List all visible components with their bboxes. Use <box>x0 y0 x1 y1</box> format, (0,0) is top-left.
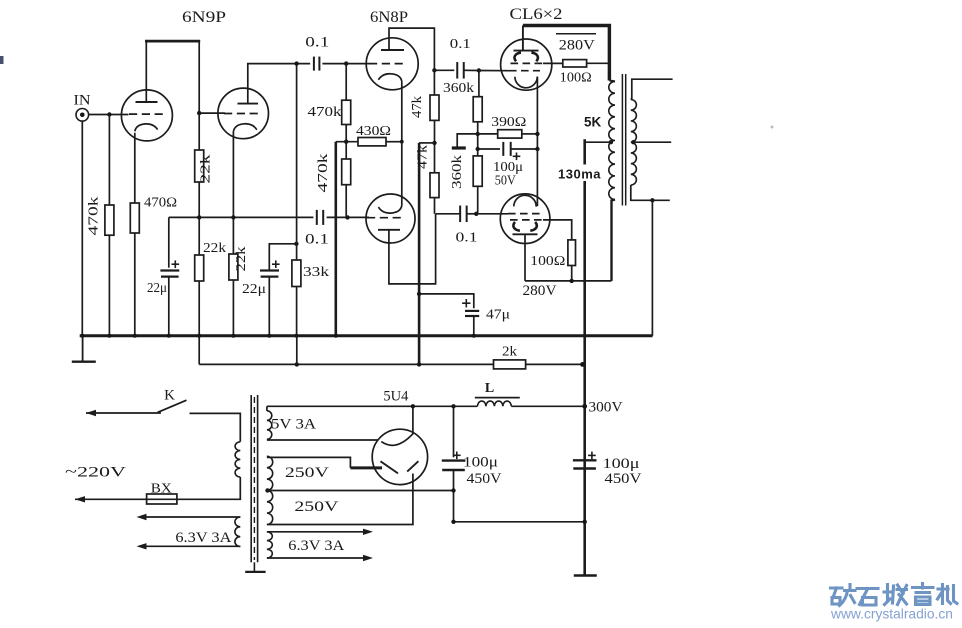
resistor R14 100ohm screen body (lower) <box>568 240 576 266</box>
wire B+ feed column (thick) down across rail to 2k wire <box>418 143 421 365</box>
node HV center tap <box>265 488 269 492</box>
input jack IN <box>76 109 89 122</box>
tube V2 cathode lead down to cathode line <box>232 132 234 218</box>
tube V6 CL6 lower envelope <box>500 194 550 244</box>
wire C2 to V3 grid node <box>322 63 346 65</box>
resistor R17 leads <box>296 217 298 260</box>
svg-text:6.3V 3A: 6.3V 3A <box>288 538 345 554</box>
svg-text:47k: 47k <box>415 145 430 169</box>
svg-text:5V 3A: 5V 3A <box>271 417 317 433</box>
svg-text:0.1: 0.1 <box>456 231 478 246</box>
svg-text:450V: 450V <box>467 471 503 487</box>
svg-text:470k: 470k <box>86 196 101 235</box>
choke L winding <box>478 401 512 406</box>
wire V1 plate riser and top route to node A <box>145 41 147 102</box>
wire HV center tap to filter negative <box>267 490 454 492</box>
node cathode column at 390ohm <box>535 132 539 136</box>
node V4 grid / 470k lower <box>345 215 349 219</box>
capacitor C4 0.1 (cathode line coupling) <box>316 210 318 225</box>
resistor R16 430ohm body <box>358 138 386 146</box>
capacitor C8 47u plates <box>465 310 479 312</box>
wire fuse to mains arrow lower <box>75 498 147 500</box>
wire V4 plate riser to C6 <box>436 213 461 215</box>
svg-text:5K: 5K <box>584 115 602 130</box>
resistor R10 leads <box>434 143 436 173</box>
svg-text:2k: 2k <box>502 345 517 360</box>
resistor R12 leads <box>477 134 479 156</box>
stray scan speck <box>771 126 774 129</box>
svg-text:0.1: 0.1 <box>305 232 329 248</box>
capacitor C2 0.1 coupling (V2 plate to V3 grid) <box>313 57 315 71</box>
resistor R16 leads <box>336 141 358 143</box>
node V1 grid / R1 <box>107 112 111 116</box>
resistor R2 lead to ground rail <box>134 233 136 336</box>
svg-text:www.crystalradio.cn: www.crystalradio.cn <box>830 607 953 622</box>
capacitor C11 100u/450V plates (second filter) <box>573 459 597 461</box>
node R3 bottom on cathode line <box>197 215 201 219</box>
capacitor C7 100u/50V plates <box>502 142 504 156</box>
resistor R8 47k body (upper, V3 plate load) <box>430 95 439 120</box>
tube V5 grid dashes <box>509 70 540 72</box>
capacitor C10 100u/450V column <box>453 406 455 457</box>
svg-text:22k: 22k <box>198 154 213 183</box>
tube V5 beam plate left <box>515 53 521 62</box>
tube V2 6N9P section B envelope <box>218 88 269 139</box>
node rail tie on 2k row <box>295 362 299 366</box>
node B V3 plate <box>432 68 436 72</box>
resistor R9 leads <box>478 71 480 97</box>
tube V5 plate bar <box>514 50 539 52</box>
T1 HV winding 250-0-250 coil <box>267 456 273 524</box>
node V2 cathode on cathode line <box>231 215 235 219</box>
capacitor C9 plus sign <box>272 263 280 265</box>
wire 5V bottom to 5U4 filament <box>267 439 379 441</box>
tube V2 grid dashes <box>224 113 260 115</box>
wire 6.3V right top lead <box>267 531 364 533</box>
node filament riser on B+ raw line <box>411 404 415 408</box>
svg-text:100μ: 100μ <box>463 455 498 471</box>
tube V6 screen dashes <box>510 219 543 221</box>
resistor R7 470k body (V3 grid leak upper) <box>342 100 351 124</box>
node 33k / 22u tap <box>294 242 298 246</box>
wire HV top 250V lead to 5U4 plate <box>267 457 351 468</box>
tube V1 cathode lead <box>134 133 136 203</box>
node bias junction upper (390ohm / 360k) <box>476 132 480 136</box>
resistor R12 360k body (lower V6 grid leak) <box>473 156 482 186</box>
svg-text:250V: 250V <box>285 465 330 481</box>
tube V1 grid dashes <box>129 113 166 115</box>
ground rail main (thick) <box>80 334 653 337</box>
capacitor C8 plus sign <box>462 302 470 304</box>
wire 5V top / B+ raw line to choke and 300V <box>267 405 478 407</box>
node V5 grid / R9 360k <box>477 68 481 72</box>
T1 rectifier heater winding 5V coil <box>267 411 272 440</box>
resistor R2 470ohm cathode body <box>130 203 139 233</box>
node 2k to B+ column <box>580 362 585 367</box>
resistor R1 470k body <box>105 205 114 235</box>
tube V6 grid dashes <box>508 213 540 215</box>
svg-text:6.3V 3A: 6.3V 3A <box>175 530 232 546</box>
output transformer T2 secondary top lead <box>631 79 673 99</box>
resistor R5 22k body (second on node-A column) <box>195 255 204 281</box>
resistor R10 47k body (lower, V4 plate load) <box>430 173 439 198</box>
ground symbol left <box>82 336 84 362</box>
svg-text:360k: 360k <box>449 155 464 189</box>
rectifier 5U4 anode right <box>407 461 418 471</box>
svg-text:22μ: 22μ <box>147 281 167 296</box>
tube V4 grid dashes <box>367 217 403 219</box>
svg-text:250V: 250V <box>294 499 339 515</box>
wire C6 to V6 grid node <box>467 213 477 215</box>
node cathode column at C7 <box>535 147 539 151</box>
node bottom wire left <box>451 520 455 524</box>
node C10 to HV center tap <box>451 488 455 492</box>
capacitor C6 0.1 coupling (V4 plate to V6 grid) <box>459 206 461 223</box>
svg-text:430Ω: 430Ω <box>356 124 391 139</box>
svg-text:22k: 22k <box>233 246 248 271</box>
resistor R14 lead <box>571 266 573 281</box>
output transformer T2 core <box>621 74 623 206</box>
node bias junction lower (100u50V wire) <box>476 147 480 151</box>
filter negative bottom wire <box>454 521 585 523</box>
resistor R17 33k body <box>292 260 301 287</box>
wire 6.3V left bottom lead <box>143 545 240 547</box>
mains arrow upper <box>86 410 96 416</box>
svg-text:100μ: 100μ <box>603 456 640 472</box>
capacitor C10 lower lead <box>453 470 455 522</box>
tube V3 cathode arc <box>378 74 401 82</box>
switch K lever <box>158 400 187 412</box>
tube V1 6N9P section A envelope <box>121 90 172 141</box>
resistor R9 360k body (upper V5 grid leak) <box>473 97 482 122</box>
label 130ma background patch <box>556 165 605 182</box>
tube V5 CL6 upper envelope <box>501 39 552 90</box>
wire long-tail column (thick) to ground rail <box>334 142 337 336</box>
tube V1 plate bar <box>136 101 158 103</box>
wire decoupler tap to capacitor C8 47u <box>419 294 474 308</box>
svg-text:L: L <box>485 381 494 396</box>
tube V3 6N8P section A envelope <box>366 38 418 90</box>
resistor R1 470k grid leak: lead <box>108 115 110 206</box>
node B+ feed on 2k row <box>417 362 421 366</box>
svg-text:0.1: 0.1 <box>305 35 329 51</box>
tube V1 cathode arc <box>135 124 158 131</box>
capacitor C10 plates <box>442 459 466 461</box>
capacitor C3 22u (V1 side) top corner <box>168 217 170 267</box>
wire rail tie riser <box>296 336 298 364</box>
svg-text:K: K <box>164 388 175 404</box>
wire V5 screen lead <box>543 62 563 64</box>
wire V6 screen lead <box>543 220 572 240</box>
resistor R11 lead to B+ <box>587 62 610 64</box>
svg-text:450V: 450V <box>605 471 643 487</box>
wire shared cathode column V5-V6 <box>536 149 538 206</box>
wire V4 plate route down-right-up to C6 <box>389 214 436 284</box>
wire 6.3V right bottom lead <box>267 557 364 559</box>
svg-text:280V: 280V <box>559 38 596 54</box>
svg-text:100Ω: 100Ω <box>560 71 592 86</box>
wire V5 plate riser to top B+ line <box>522 26 524 51</box>
resistor R7 leads <box>345 64 347 101</box>
wire node B to coupling cap C5 <box>434 69 454 71</box>
svg-text:CL6×2: CL6×2 <box>510 6 563 23</box>
tube V5 beam plate right <box>531 53 537 62</box>
tube V5 cathode lead down to bias network <box>536 77 538 149</box>
T1 primary coil <box>235 442 240 477</box>
node V6 grid / R12 360k <box>474 212 478 216</box>
output transformer T2 secondary bottom lead <box>631 185 670 200</box>
node filter cap C10 on B+ raw line <box>451 404 455 408</box>
resistor R5 lead to ground rail and below <box>198 217 200 255</box>
wire 6.3V left top lead <box>143 516 240 518</box>
wire bias to capacitor C7 <box>478 148 500 150</box>
tube V6 beam plate left <box>513 222 519 231</box>
output transformer T2 secondary winding <box>631 100 637 186</box>
resistor R3 22k upper body on node-A column <box>195 150 204 182</box>
capacitor C3 lead to ground rail <box>168 277 170 336</box>
node secondary return <box>650 198 654 202</box>
feedback/bleeder wire 2k row <box>198 336 200 365</box>
svg-text:300V: 300V <box>589 400 624 416</box>
resistor R11 100ohm screen body <box>563 60 587 67</box>
ground symbol right <box>574 574 597 576</box>
capacitor C3 22u plates <box>160 269 179 271</box>
node V3/V4 cathode tie <box>400 140 404 144</box>
svg-text:6N8P: 6N8P <box>370 9 408 26</box>
wire HV bottom 250V lead to 5U4 plate <box>267 474 413 525</box>
wire secondary return to ground rail <box>651 200 653 335</box>
tube V2 plate bar <box>238 103 259 105</box>
node A V1 plate to V2 grid <box>197 111 201 115</box>
output transformer T2 primary center tap <box>609 140 613 144</box>
node V2 plate load on plate wire <box>294 61 298 65</box>
T1 core ground stem and bar <box>253 562 255 572</box>
tube V4 cathode arc <box>378 206 401 214</box>
power transformer T1 core <box>250 395 252 562</box>
resistor R15 470k body (lower, V4 grid leak) <box>342 159 351 185</box>
wire switch to T1 primary <box>190 413 241 441</box>
rectifier 5U4 anode left <box>381 461 399 473</box>
tube V3 plate bar <box>381 49 404 51</box>
wire V3 plate riser top route down to node B <box>389 28 434 70</box>
node 300V <box>582 404 587 409</box>
tube V6 plate bar <box>513 233 538 235</box>
svg-text:0.1: 0.1 <box>450 37 471 52</box>
tube V4 plate bar <box>378 229 400 231</box>
tube V2 cathode arc <box>233 124 256 132</box>
resistor R13 390ohm body <box>498 130 522 138</box>
node cathode bias junction 430ohm <box>344 140 348 144</box>
node 47u decoupler tap <box>417 292 421 296</box>
tube V4 cathode lead up to 430ohm wire <box>401 142 403 206</box>
wire secondary mid tap out <box>633 141 671 143</box>
resistor R15 leads <box>345 142 347 159</box>
ground rail connection dots <box>80 334 84 338</box>
tube V6 cathode arc <box>514 195 536 206</box>
capacitor C9 lead to ground rail <box>268 277 270 336</box>
svg-text:IN: IN <box>74 93 92 109</box>
wire C5 to V5 grid node <box>464 69 479 71</box>
tube V4 6N8P section B envelope (inverted) <box>366 194 415 243</box>
fuse BX body <box>147 494 177 504</box>
stray blue scan mark left edge <box>0 56 4 64</box>
rectifier 5U4 filament arc <box>381 433 413 445</box>
cathode line wire y217 from 22u corner to V4 grid <box>169 216 314 218</box>
capacitor C5 0.1 coupling (V3 plate to V5 grid) <box>456 62 458 79</box>
T1 heater winding 6.3V right coil <box>267 532 272 558</box>
wire V6 grid from node <box>476 213 508 215</box>
wire node to V3 grid <box>346 63 369 65</box>
resistor R6 leads <box>232 217 234 254</box>
tube V5 screen dashes <box>511 62 544 64</box>
resistor R8 leads <box>433 70 435 95</box>
wire C4 to V4 grid <box>327 216 369 218</box>
resistor R3 leads <box>198 113 200 150</box>
svg-text:6N9P: 6N9P <box>182 9 226 26</box>
wire node A to V2 grid <box>199 112 225 114</box>
resistor R13 leads <box>478 133 498 135</box>
wire V5 grid from node <box>479 70 509 72</box>
svg-text:280V: 280V <box>523 283 558 299</box>
tube V6 beam plate right <box>530 222 536 231</box>
tube V3 grid dashes <box>369 63 405 65</box>
tube V3 cathode lead down to 430ohm wire <box>401 81 403 141</box>
wire choke output to 300V node <box>511 405 584 407</box>
output transformer T2 primary bottom lead <box>612 200 616 281</box>
label 280V upper overline <box>556 33 596 35</box>
watermark Chinese characters (drawn strokes) <box>831 584 958 606</box>
svg-text:~220V: ~220V <box>65 465 126 481</box>
wire V2 plate load column to 33k <box>296 64 298 218</box>
capacitor C9 22u plates <box>260 269 279 271</box>
resistor R6 22k body (V2 cathode column) <box>229 254 238 280</box>
svg-text:470Ω: 470Ω <box>144 196 177 211</box>
svg-text:47k: 47k <box>409 96 424 118</box>
output transformer T2 primary winding 5K <box>608 26 611 81</box>
node screen resistor to plate wire <box>570 279 574 283</box>
wire node C to B+ feed column <box>419 142 434 144</box>
capacitor C9 22u (V2 side) top lead <box>269 244 296 271</box>
wire top plate supply line (thick) to output transformer <box>523 26 610 81</box>
capacitor C11 plus sign <box>588 454 596 456</box>
power transformer T1 primary winding <box>86 412 161 414</box>
wire B+ main column (thick) from center tap down to 300V node <box>583 139 586 575</box>
ground stub of bias network <box>457 134 478 147</box>
svg-text:130ma: 130ma <box>558 167 601 182</box>
svg-text:22μ: 22μ <box>242 282 266 297</box>
capacitor C7 plus sign <box>513 155 521 157</box>
svg-text:33k: 33k <box>303 265 329 280</box>
svg-text:22k: 22k <box>203 241 226 256</box>
tube V5 cathode arc <box>515 77 537 88</box>
output transformer T2 secondary mid tap <box>631 140 635 144</box>
node bottom wire right <box>583 520 587 524</box>
wire IN jack sleeve to ground rail <box>81 121 83 336</box>
capacitor C8 lead to ground rail <box>473 316 475 336</box>
rectifier 5U4 envelope <box>372 429 427 484</box>
wire C7 to cathode column <box>511 148 538 150</box>
svg-text:470k: 470k <box>315 153 330 192</box>
svg-text:100Ω: 100Ω <box>530 254 565 269</box>
wire V6 plate lead down to bottom plate wire <box>524 234 526 281</box>
capacitor C3 plus sign <box>172 263 180 265</box>
choke L core bar <box>475 397 520 399</box>
wire primary center tap to B+ column <box>585 141 612 143</box>
wire V2 plate riser to coupling cap C2 <box>248 64 310 104</box>
wire bottom plate supply to output transformer <box>525 280 612 282</box>
node C decoupled B+ for driver <box>432 141 436 145</box>
capacitor C10 plus sign <box>453 454 461 456</box>
svg-text:50V: 50V <box>495 174 516 189</box>
svg-text:390Ω: 390Ω <box>491 115 526 130</box>
svg-text:BX: BX <box>151 482 172 497</box>
wire T1 primary bottom to fuse BX <box>177 477 240 499</box>
svg-text:360k: 360k <box>443 81 474 96</box>
resistor R18 2k body <box>494 360 526 369</box>
rectifier 5U4 filament riser <box>412 406 414 434</box>
node V3 grid / R7 470k <box>344 61 348 65</box>
resistor R1 470k lower lead to ground rail <box>108 235 110 336</box>
T1 heater winding 6.3V left coil <box>235 517 240 547</box>
wire IN jack to V1 grid <box>89 114 129 116</box>
svg-text:5U4: 5U4 <box>383 389 408 405</box>
svg-text:470k: 470k <box>308 104 342 119</box>
svg-text:47μ: 47μ <box>486 308 510 323</box>
